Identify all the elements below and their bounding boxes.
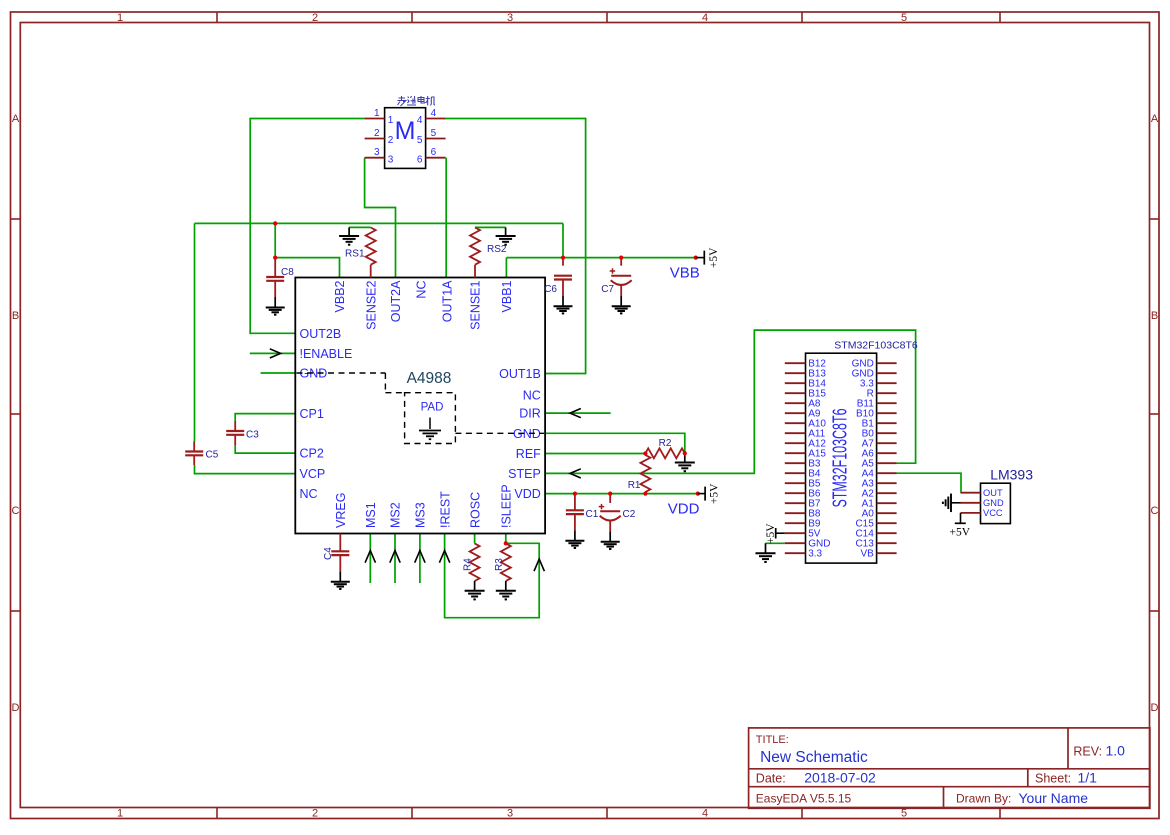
svg-text:C8: C8: [281, 267, 294, 278]
svg-text:CP2: CP2: [300, 447, 324, 461]
svg-text:4: 4: [702, 808, 708, 820]
svg-text:C7: C7: [601, 284, 614, 295]
svg-text:+5V: +5V: [765, 523, 777, 544]
svg-text:5: 5: [901, 12, 907, 24]
svg-text:REF: REF: [516, 447, 541, 461]
svg-text:2: 2: [388, 135, 394, 146]
svg-text:D: D: [1151, 702, 1159, 714]
svg-text:VBB1: VBB1: [500, 280, 514, 312]
svg-text:B: B: [1151, 310, 1158, 322]
svg-text:PAD: PAD: [421, 402, 444, 414]
svg-text:1.0: 1.0: [1106, 743, 1126, 759]
svg-text:VCP: VCP: [300, 467, 326, 481]
svg-text:CP1: CP1: [300, 407, 324, 421]
svg-text:5: 5: [901, 808, 907, 820]
svg-text:VBB2: VBB2: [333, 280, 347, 312]
svg-text:REV:: REV:: [1073, 745, 1102, 759]
svg-text:4: 4: [702, 12, 708, 24]
svg-text:NC: NC: [415, 281, 429, 299]
svg-text:STEP: STEP: [508, 467, 541, 481]
svg-text:LM393: LM393: [990, 467, 1033, 483]
svg-text:3: 3: [507, 12, 513, 24]
svg-text:2: 2: [312, 808, 318, 820]
svg-text:R2: R2: [659, 438, 672, 449]
svg-text:4: 4: [417, 115, 423, 126]
svg-text:D: D: [12, 702, 20, 714]
svg-text:OUT: OUT: [983, 488, 1003, 498]
svg-text:VB: VB: [860, 549, 874, 560]
svg-text:RS2: RS2: [487, 244, 507, 255]
svg-text:TITLE:: TITLE:: [756, 734, 789, 746]
svg-text:DIR: DIR: [519, 407, 541, 421]
svg-text:2: 2: [374, 128, 380, 139]
svg-text:GND: GND: [983, 498, 1004, 508]
svg-text:1: 1: [374, 108, 380, 119]
svg-text:MS3: MS3: [414, 502, 428, 528]
svg-text:Drawn By:: Drawn By:: [956, 792, 1011, 806]
svg-text:VBB: VBB: [670, 264, 700, 281]
svg-text:Your Name: Your Name: [1019, 790, 1089, 806]
svg-text:5: 5: [417, 135, 423, 146]
svg-text:STM32F103C8T6: STM32F103C8T6: [830, 409, 852, 508]
svg-text:R1: R1: [628, 480, 641, 491]
svg-text:Sheet:: Sheet:: [1035, 771, 1071, 785]
svg-text:New Schematic: New Schematic: [760, 749, 868, 766]
svg-text:VCC: VCC: [983, 508, 1003, 518]
svg-text:1: 1: [117, 808, 123, 820]
svg-text:C1: C1: [586, 509, 599, 520]
svg-text:STM32F103C8T6: STM32F103C8T6: [834, 340, 918, 352]
svg-text:C2: C2: [623, 509, 636, 520]
svg-text:3: 3: [388, 154, 394, 165]
svg-text:Date:: Date:: [756, 771, 786, 785]
svg-text:4: 4: [431, 108, 437, 119]
svg-text:R3: R3: [494, 558, 505, 571]
svg-text:OUT1A: OUT1A: [440, 280, 454, 322]
svg-text:MS2: MS2: [389, 502, 403, 528]
svg-text:RS1: RS1: [345, 249, 365, 260]
svg-text:NC: NC: [300, 487, 318, 501]
svg-text:5: 5: [431, 128, 437, 139]
svg-text:OUT1B: OUT1B: [499, 367, 541, 381]
svg-text:1: 1: [117, 12, 123, 24]
svg-text:R4: R4: [463, 558, 474, 571]
svg-text:ROSC: ROSC: [468, 492, 482, 528]
svg-text:SENSE2: SENSE2: [364, 280, 378, 329]
svg-text:A4988: A4988: [407, 370, 452, 387]
svg-text:3: 3: [374, 147, 380, 158]
svg-text:VREG: VREG: [334, 493, 348, 528]
svg-text:+5V: +5V: [709, 483, 721, 504]
svg-text:+5V: +5V: [708, 247, 720, 268]
svg-text:A: A: [12, 113, 20, 125]
svg-text:!REST: !REST: [438, 491, 452, 528]
svg-text:3: 3: [507, 808, 513, 820]
svg-text:2: 2: [312, 12, 318, 24]
svg-text:OUT2B: OUT2B: [300, 327, 342, 341]
svg-text:C3: C3: [246, 430, 259, 441]
svg-text:A: A: [1151, 113, 1159, 125]
svg-text:NC: NC: [523, 389, 541, 403]
svg-text:SENSE1: SENSE1: [469, 280, 483, 329]
svg-text:C4: C4: [323, 547, 334, 560]
svg-text:!ENABLE: !ENABLE: [300, 347, 353, 361]
svg-text:M: M: [395, 117, 416, 145]
svg-text:C: C: [1151, 505, 1159, 517]
svg-text:B: B: [12, 310, 19, 322]
svg-text:C5: C5: [206, 450, 219, 461]
svg-text:!SLEEP: !SLEEP: [500, 484, 514, 528]
svg-text:VDD: VDD: [668, 500, 700, 517]
svg-text:VDD: VDD: [514, 487, 540, 501]
svg-text:EasyEDA V5.5.15: EasyEDA V5.5.15: [756, 792, 852, 806]
svg-text:C6: C6: [544, 284, 557, 295]
svg-text:1/1: 1/1: [1078, 769, 1098, 785]
svg-text:6: 6: [417, 154, 423, 165]
svg-text:+5V: +5V: [950, 527, 971, 539]
svg-text:OUT2A: OUT2A: [389, 280, 403, 322]
svg-text:3.3: 3.3: [808, 549, 822, 560]
svg-text:2018-07-02: 2018-07-02: [804, 769, 876, 785]
svg-text:C: C: [12, 505, 20, 517]
svg-text:GND: GND: [513, 427, 541, 441]
svg-text:6: 6: [431, 147, 437, 158]
svg-text:1: 1: [388, 115, 394, 126]
svg-text:MS1: MS1: [364, 502, 378, 528]
